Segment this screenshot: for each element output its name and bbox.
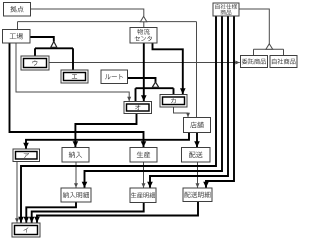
wire 拠点 to subtype apex (31, 9, 144, 16)
wire drop to オ (135, 88, 137, 101)
entity 自社商品 (270, 56, 297, 68)
wire 物流センタ to オ (141, 43, 147, 101)
wire subtype base line 拠点系 (18, 21, 197, 23)
wire 生産明細 to イ (29, 202, 144, 223)
wire drop to 工場 (17, 22, 19, 30)
wire ウ to 委託商品 (49, 61, 240, 65)
entity カ (double border) (160, 95, 187, 108)
wire 工場 to オ (16, 43, 131, 101)
wire drop to 店舗 (196, 22, 198, 118)
wire 店舗 to 配送 (194, 133, 200, 148)
wire subtype branch 工場系 (35, 47, 73, 49)
entity 拠点 (4, 3, 31, 17)
wire 自社仕様商品 to イ (18, 16, 216, 223)
entity ア (double border) (13, 149, 40, 162)
entity 物流センタ (130, 28, 157, 44)
wire 自社仕様商品 to 納入明細 (82, 16, 222, 188)
entity 納入 (62, 148, 89, 163)
entity ウ (double border) (21, 56, 49, 70)
wire 配送明細 to イ (34, 202, 198, 223)
wire 生産 to 生産明細 (142, 162, 146, 188)
subtype triangle 工場グループ (51, 42, 57, 48)
wire 自社仕様商品 to 配送明細 (203, 16, 234, 188)
wire 自社仕様商品 to 生産明細 (147, 16, 228, 188)
wire ルート to subtype apex (128, 78, 156, 82)
wire drop to 委託商品 (253, 49, 255, 55)
wire カ to 店舗 (174, 107, 191, 117)
wire drop to カ (173, 88, 175, 94)
entity 生産 (130, 148, 157, 163)
subtype triangle 商品グループ (266, 44, 273, 49)
entity 生産明細 (130, 188, 156, 203)
entity 委託商品 (241, 56, 268, 68)
entity 配送 (182, 148, 211, 163)
wire drop to 自社商品 (283, 49, 285, 55)
entity 工場 (3, 30, 31, 44)
wire subtype branch ルート系 (136, 87, 174, 89)
entity ルート (101, 70, 128, 84)
entity 納入明細 (61, 188, 91, 202)
wire ア to イ (15, 162, 19, 223)
subtype triangle ルートグループ (152, 82, 159, 87)
entity 店舗 (184, 118, 211, 133)
wire 物流センタ to カ (153, 43, 186, 94)
entity イ (double border) (12, 223, 40, 237)
wire 自社仕様商品 to subtype apex (239, 9, 269, 44)
wire drop to 物流センタ (143, 22, 145, 28)
wire subtype branch 商品系 (254, 48, 284, 50)
entity オ (double border) (124, 102, 152, 114)
entity エ (double border) (61, 70, 88, 83)
wire 工場 to subtype apex (30, 37, 54, 42)
subtype triangle 拠点グループ (140, 16, 146, 21)
wire オ to 納入 (73, 114, 137, 148)
wire 納入明細 to イ (24, 202, 77, 223)
wire 工場 to 生産 (10, 43, 147, 147)
wire 店舗 to ア (23, 133, 189, 149)
entity 配送明細 (183, 188, 212, 202)
wire 納入 to 納入明細 (74, 162, 78, 188)
entity 自社仕様商品 (213, 3, 239, 16)
wire drop to ウ (34, 48, 36, 56)
wire drop to エ (72, 48, 74, 70)
wire 配送 to 配送明細 (196, 162, 200, 188)
